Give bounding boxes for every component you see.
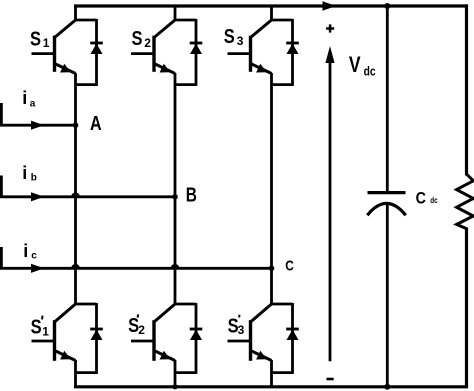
crossover bump: phase c over leg B [171,264,180,268]
transistor S2p (IGBT) [131,304,175,361]
wire: leg B emitter to bottom bus [174,360,177,388]
wire: S1p diode branch vertical [95,303,98,374]
wire: leg A emitter to bottom bus [74,360,77,388]
transistor S3p (IGBT) [228,304,272,361]
node B junction dot [172,194,178,200]
svg-text:1: 1 [43,36,50,50]
input lead ib (left stub) [0,176,3,199]
wire: Cdc branch upper segment [386,6,389,192]
svg-text:3: 3 [237,34,244,48]
label S3 [224,26,244,48]
svg-text:V: V [349,52,361,77]
wire: S1p top stub to diode branch [75,303,97,306]
svg-text:B: B [186,185,197,207]
wire: S1p emitter bottom stub to diode [76,371,98,374]
bottom DC bus (- rail) [74,385,468,388]
svg-text:dc: dc [430,195,438,205]
svg-text:i: i [22,88,27,108]
svg-text:2: 2 [144,36,151,50]
wire: right edge from resistor to bottom bus [465,228,468,389]
svg-text:C: C [416,189,426,208]
wire: S2 emitter bottom stub to diode [175,83,197,86]
junction dot: Cdc branch / bottom bus [384,384,390,390]
transistor S1p (IGBT) [32,304,76,361]
label ic [23,241,37,262]
transistor S1 (IGBT) [32,20,76,74]
label S1p [31,316,50,339]
svg-text:1: 1 [42,325,49,339]
resistor R (DC load) [457,174,474,229]
minus sign (-) [327,378,334,381]
anti-parallel diode of S2p (D5) [190,329,203,340]
svg-text:c: c [31,251,37,262]
arrowhead ia [31,121,44,130]
capacitor Cdc [367,193,405,216]
label Vdc [349,52,376,79]
anti-parallel diode of S1p (D4) [90,329,103,340]
wire: S3 top stub to diode branch [271,19,293,22]
transistor S3 (IGBT) [228,20,272,74]
wire: S3p diode branch vertical [291,303,294,374]
label S2p [128,314,145,337]
wire: S3 diode branch vertical [291,19,294,86]
wire: leg B vertical (S2 emitter to S2p collector) [174,73,177,305]
wire: phase b input line [0,195,175,198]
svg-text:A: A [90,113,102,135]
wire: leg C emitter to bottom bus [270,360,273,388]
svg-text:S: S [30,29,41,51]
anti-parallel diode of S3p (D6) [286,329,299,340]
svg-text:2: 2 [138,323,145,337]
wire: S2 top stub to diode branch [174,19,196,22]
label Cdc [416,189,438,208]
svg-text:dc: dc [364,64,376,78]
crossover bump: phase c over leg A [71,264,80,268]
svg-text:S: S [132,28,143,50]
junction dot: leg B / bottom bus [172,384,177,389]
label ia [22,88,36,109]
node C junction dot [269,266,275,272]
svg-text:3: 3 [238,323,245,337]
wire: phase a input line [0,124,76,127]
wire: right edge down to resistor [465,4,468,175]
junction dot: top bus / Cdc branch [384,3,390,9]
wire: S2 collector drop from top bus [174,6,177,21]
arrowhead ic [31,264,44,273]
wire: Cdc branch lower segment [386,204,389,389]
Vdc reference arrow (up) [325,46,334,361]
wire: S2p diode branch vertical [195,303,198,374]
wire: leg C vertical (S3 emitter to S3p collector) [270,73,273,305]
wire: S1 top stub to diode branch [75,19,97,22]
svg-text:i: i [22,163,27,183]
wire: S3 collector drop from top bus [270,6,273,21]
label S2 [132,28,152,50]
label S3p [228,315,245,338]
svg-text:S: S [31,317,42,339]
top DC bus (+ rail) [74,4,468,7]
svg-text:b: b [31,173,37,184]
label ib [22,163,37,184]
input lead ia (left stub) [0,103,3,126]
wire: S1 collector drop from top bus [74,6,77,21]
node A junction dot [73,122,79,128]
wire: S2p top stub to diode branch [174,303,196,306]
wire: S3p top stub to diode branch [271,303,293,306]
transistor S2 (IGBT) [131,20,175,74]
anti-parallel diode of S3 (D3) [286,43,299,54]
input lead ic (left stub) [0,247,3,270]
wire: S1 diode branch vertical [95,19,98,86]
wire: S3p emitter bottom stub to diode [272,371,294,374]
svg-text:i: i [23,241,28,261]
wire: S2p emitter bottom stub to diode [175,371,197,374]
crossover bump: phase b over leg A [71,192,80,196]
arrowhead ib [31,192,44,201]
wire: S3 emitter bottom stub to diode [272,83,294,86]
anti-parallel diode of S1 (D1) [90,43,103,54]
plus sign (+) [326,24,334,32]
svg-text:S: S [224,26,235,48]
wire: S1 emitter bottom stub to diode [76,83,98,86]
wire: S2 diode branch vertical [195,19,198,86]
wire: phase c input line [0,267,272,270]
wire: leg A vertical (S1 emitter to S1p collector) [74,73,77,305]
label S1 [30,29,50,51]
svg-text:a: a [30,99,36,110]
anti-parallel diode of S2 (D2) [190,43,203,54]
current arrow on top DC bus [323,1,337,11]
svg-text:C: C [285,258,294,275]
